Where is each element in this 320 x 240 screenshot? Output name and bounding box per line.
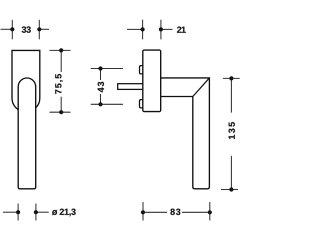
dimension 75,5 tick top xyxy=(50,49,71,51)
side view rosette plate xyxy=(143,50,161,112)
dimension 33 line right xyxy=(39,28,49,30)
dimension 75,5 line lower xyxy=(60,97,62,113)
dimension dia 21,3 line right xyxy=(36,211,49,213)
side view fixing tab top xyxy=(140,66,145,74)
dimension 83 extension line right xyxy=(209,202,211,221)
front view rosette plate xyxy=(12,50,40,112)
dimension dia 21,3 dot left xyxy=(16,210,20,214)
dimension 33 dot right xyxy=(37,27,41,31)
front view handle bar xyxy=(18,78,36,189)
dimension 43 dot top xyxy=(98,66,102,70)
dimension dia 21,3 extension line left xyxy=(17,204,19,221)
dimension 83 extension line left xyxy=(142,202,144,221)
side view spindle shaft xyxy=(118,84,144,90)
dimension 75,5 label xyxy=(55,74,63,94)
dimension 83 label xyxy=(170,209,180,215)
dimension 43 extension line top xyxy=(91,68,123,70)
dimension dia 21,3 extension line right xyxy=(35,204,37,221)
dimension 135 label xyxy=(229,122,235,139)
dimension 21 dot left xyxy=(141,27,145,31)
dimension 75,5 line upper xyxy=(60,50,62,72)
dimension 135 line upper xyxy=(230,78,232,112)
dimension 83 dot left xyxy=(141,210,145,214)
dimension dia 21,3 label xyxy=(52,209,76,217)
dimension 33 extension line left xyxy=(11,20,13,40)
dimension 21 extension line left xyxy=(142,20,144,40)
side view handle arm and grip bar xyxy=(160,78,209,189)
dimension 43 line lower xyxy=(100,94,102,104)
dimension 83 line left xyxy=(143,211,167,213)
dimension 33 extension line right xyxy=(38,20,40,40)
dimension 75,5 dot bottom xyxy=(59,110,63,114)
dimension 21 line left xyxy=(127,28,143,30)
dimension 43 line upper xyxy=(100,69,102,81)
dimension 83 line right xyxy=(182,211,210,213)
dimension 33 dot left xyxy=(10,27,14,31)
dimension 21 label xyxy=(177,27,186,33)
dimension 21 extension line right xyxy=(160,20,162,40)
dimension 135 line lower xyxy=(230,156,232,190)
dimension 21 line right xyxy=(161,28,173,30)
side view fixing tab bottom xyxy=(140,100,145,108)
dimension 43 extension line bottom xyxy=(91,103,123,105)
dimension dia 21,3 dot right xyxy=(34,210,38,214)
dimension dia 21,3 line left xyxy=(3,211,18,213)
dimension 43 label xyxy=(98,82,104,93)
dimension 21 dot right xyxy=(159,27,163,31)
dimension 135 dot bottom xyxy=(229,187,233,191)
side view miter joint line xyxy=(193,78,210,97)
dimension 75,5 tick bottom xyxy=(50,111,71,113)
dimension 83 dot right xyxy=(208,210,212,214)
dimension 33 line left xyxy=(1,28,13,30)
dimension 33 label xyxy=(22,26,31,32)
dimension 75,5 dot top xyxy=(59,48,63,52)
dimension 135 dot top xyxy=(229,76,233,80)
dimension 43 dot bottom xyxy=(98,102,102,106)
dimension 135 tick bottom xyxy=(221,189,238,191)
dimension 135 tick top xyxy=(223,77,240,79)
